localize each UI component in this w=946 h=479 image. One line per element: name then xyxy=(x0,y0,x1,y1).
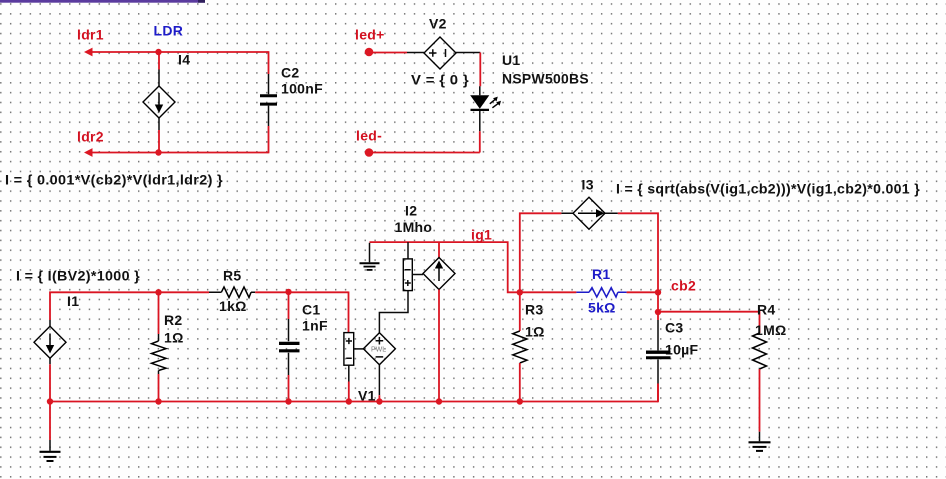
junction I1/gnd xyxy=(47,398,53,404)
svg-text:R1: R1 xyxy=(592,266,611,282)
source V1 (PWL diamond) xyxy=(363,333,395,396)
junction ldr1/I4 xyxy=(155,49,161,55)
junction PWL bottom xyxy=(376,398,382,404)
wire C1 bottom xyxy=(288,375,290,402)
wire PWL bottom stub xyxy=(378,395,380,401)
transconductance source I2 (sense box) xyxy=(379,242,423,333)
node marker led- (dot) xyxy=(365,148,374,157)
capacitor C2 xyxy=(260,74,277,126)
svg-text:cb2: cb2 xyxy=(671,278,696,294)
resistor R5 xyxy=(209,287,255,298)
svg-text:1Mho: 1Mho xyxy=(395,219,433,235)
svg-text:C2: C2 xyxy=(281,65,300,81)
svg-text:C3: C3 xyxy=(665,320,684,336)
wire I1 bottom xyxy=(49,364,51,401)
wire top row left xyxy=(50,292,209,320)
node marker led+ (dot) xyxy=(365,48,374,57)
svg-text:100nF: 100nF xyxy=(281,81,323,97)
title bar remnant (purple) xyxy=(0,0,205,3)
wire R3 top xyxy=(519,292,521,331)
svg-text:ldr1: ldr1 xyxy=(77,27,104,43)
junction C1 bottom xyxy=(285,398,291,404)
capacitor C1 xyxy=(279,319,300,375)
wire I4 bottom stub xyxy=(158,130,160,153)
wire ldr2 bottom xyxy=(89,152,269,154)
wire I3 loop left xyxy=(520,213,562,292)
svg-text:V = { 0 }: V = { 0 } xyxy=(411,72,469,88)
wire top row mid xyxy=(255,291,348,293)
svg-text:PWL: PWL xyxy=(371,347,386,354)
wire bottom rail right riser xyxy=(657,384,659,403)
node marker ldr2 (arrow) xyxy=(84,148,93,157)
svg-text:ldr2: ldr2 xyxy=(77,129,104,145)
current source I3 xyxy=(561,197,617,229)
svg-text:LDR: LDR xyxy=(154,23,184,39)
svg-text:1MΩ: 1MΩ xyxy=(755,322,787,338)
junction R3 bottom xyxy=(517,398,523,404)
svg-text:C1: C1 xyxy=(302,302,321,318)
wire led+ xyxy=(373,52,407,54)
transconductance source I2 (output diamond) xyxy=(423,242,455,401)
wire cb2 down xyxy=(657,292,659,320)
resistor R1 xyxy=(576,288,626,297)
junction ldr2/I4 xyxy=(155,149,161,155)
wire I3 loop right xyxy=(618,213,658,292)
wire R3 bottom xyxy=(519,363,521,402)
wire C2 right bottom xyxy=(268,126,270,153)
junction R1 left xyxy=(517,289,523,295)
ground R4 xyxy=(749,432,771,451)
svg-text:R3: R3 xyxy=(525,302,544,318)
wire C2 right top xyxy=(268,51,270,74)
resistor R3 xyxy=(513,331,527,363)
svg-text:I = { sqrt(abs(V(ig1,cb2)))*V(: I = { sqrt(abs(V(ig1,cb2)))*V(ig1,cb2)*0… xyxy=(616,181,920,197)
capacitor C3 xyxy=(646,320,671,384)
svg-text:R4: R4 xyxy=(757,302,776,318)
junction I2 output bottom xyxy=(436,398,442,404)
svg-text:led+: led+ xyxy=(355,27,385,43)
wire V1 riser xyxy=(348,292,350,333)
junction C1/top xyxy=(285,289,291,295)
wire bottom rail xyxy=(50,401,658,403)
wire C1 top xyxy=(288,292,290,319)
junction R2 bottom xyxy=(155,398,161,404)
source V1 (sense box) xyxy=(344,333,364,382)
wire ldr1 top xyxy=(89,51,269,53)
svg-text:NSPW500BS: NSPW500BS xyxy=(502,71,589,87)
wire ground stem bottom-left xyxy=(49,402,51,441)
resistor R2 xyxy=(152,334,167,374)
svg-text:I2: I2 xyxy=(405,203,417,219)
resistor R4 xyxy=(753,333,767,369)
wire R2 top xyxy=(158,292,160,334)
current source I4 xyxy=(143,70,175,131)
svg-text:I = { I(BV2)*1000 }: I = { I(BV2)*1000 } xyxy=(16,268,140,284)
wire I4 top stub xyxy=(158,52,160,70)
svg-text:U1: U1 xyxy=(502,52,521,68)
svg-text:1Ω: 1Ω xyxy=(525,324,545,340)
wire ig1 xyxy=(370,242,520,292)
wire R2 bottom xyxy=(158,374,160,402)
node marker ldr1 (arrow) xyxy=(84,48,93,57)
wire V2 to LED xyxy=(479,53,481,87)
wire to R4 xyxy=(658,312,760,333)
junction V1 bottom xyxy=(346,398,352,404)
junction R2/top xyxy=(155,289,161,295)
ground near I2 xyxy=(360,243,380,270)
wire C3 bottom xyxy=(657,384,659,402)
wire R1 row right xyxy=(627,291,658,293)
svg-text:I1: I1 xyxy=(67,293,79,309)
svg-text:10µF: 10µF xyxy=(665,342,699,358)
svg-text:1Ω: 1Ω xyxy=(164,330,184,346)
svg-text:I3: I3 xyxy=(582,177,594,193)
svg-text:1kΩ: 1kΩ xyxy=(219,298,247,314)
svg-text:led-: led- xyxy=(356,128,382,144)
svg-text:I4: I4 xyxy=(178,52,190,68)
svg-text:I = { 0.001*V(cb2)*V(ldr1,ldr2: I = { 0.001*V(cb2)*V(ldr1,ldr2) } xyxy=(5,172,223,188)
svg-text:5kΩ: 5kΩ xyxy=(588,300,616,316)
wire V1 bottom stub xyxy=(348,382,350,402)
svg-text:R5: R5 xyxy=(223,268,242,284)
junction cb2 xyxy=(655,289,661,295)
junction C3/R4 xyxy=(655,309,661,315)
svg-text:R2: R2 xyxy=(164,312,183,328)
ground bottom-left xyxy=(40,440,61,461)
wire R4 bottom xyxy=(759,369,761,432)
wire LED to led- xyxy=(373,131,480,152)
svg-text:1nF: 1nF xyxy=(302,318,328,334)
voltage source V2 xyxy=(407,37,480,69)
svg-text:V2: V2 xyxy=(429,16,447,32)
current source I1 xyxy=(34,320,66,364)
svg-text:ig1: ig1 xyxy=(471,227,492,243)
LED U1 xyxy=(470,86,501,131)
wire R1 row left xyxy=(520,291,577,293)
